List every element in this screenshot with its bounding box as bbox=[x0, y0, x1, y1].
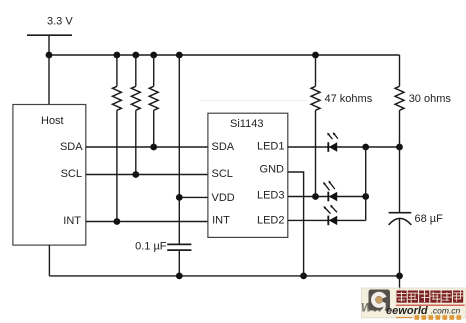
junction LED1 common bbox=[362, 144, 369, 151]
svg-text:GND: GND bbox=[260, 164, 285, 176]
power supply bar 3.3V bbox=[27, 34, 72, 36]
capacitor C1 0.1uF bbox=[167, 244, 191, 276]
svg-text:Host: Host bbox=[41, 115, 64, 127]
wire host top bbox=[48, 55, 50, 105]
resistor R3 pull-up SDA bbox=[149, 55, 158, 147]
svg-text:ee: ee bbox=[386, 305, 398, 317]
svg-text:.com.cn: .com.cn bbox=[431, 306, 461, 316]
svg-text:VDD: VDD bbox=[212, 192, 235, 204]
wire INT bus bbox=[86, 221, 208, 223]
resistor R5 30ohm bbox=[395, 55, 404, 147]
faint artifact line bbox=[200, 99, 308, 101]
wire LED1 row bbox=[288, 146, 400, 148]
svg-text:LED2: LED2 bbox=[257, 214, 285, 226]
svg-text:INT: INT bbox=[212, 215, 230, 227]
junction SDA R3 bbox=[150, 144, 157, 151]
svg-text:world: world bbox=[398, 305, 428, 317]
junction rail 47k bbox=[312, 52, 319, 59]
IC U1 Si1143 bbox=[208, 113, 288, 237]
junction gnd C2 bbox=[396, 273, 403, 280]
wire VDD to chip bbox=[179, 196, 208, 198]
junction VDD bbox=[176, 194, 183, 201]
junction LED3 47k bbox=[312, 193, 319, 200]
wire SCL bus bbox=[86, 174, 208, 176]
wire power bar to rail bbox=[48, 35, 50, 55]
svg-text:68 µF: 68 µF bbox=[415, 213, 444, 225]
junction rail at host bbox=[46, 52, 53, 59]
wire LED3 row bbox=[288, 196, 366, 198]
wire host gnd stub bbox=[48, 245, 50, 276]
wire LED2 row bbox=[288, 219, 366, 221]
LED D3 bbox=[323, 181, 337, 202]
resistor R1 pull-up INT bbox=[112, 55, 121, 222]
svg-text:LED3: LED3 bbox=[257, 190, 285, 202]
host block bbox=[13, 105, 86, 246]
junction gnd chip bbox=[300, 273, 307, 280]
junction SCL R2 bbox=[132, 171, 139, 178]
svg-text:SDA: SDA bbox=[60, 141, 83, 153]
wire top supply rail bbox=[49, 54, 400, 56]
svg-text:INT: INT bbox=[63, 215, 81, 227]
resistor R4 47k bbox=[311, 55, 320, 197]
svg-text:SCL: SCL bbox=[212, 168, 233, 180]
junction rail VDD line bbox=[176, 52, 183, 59]
LED D2 bbox=[323, 205, 337, 225]
junction LED3 common bbox=[362, 193, 369, 200]
wire ground bus bbox=[49, 275, 399, 277]
junction LED1 30ohm bbox=[396, 144, 403, 151]
wire gnd stub down bbox=[399, 276, 401, 291]
svg-text:3.3 V: 3.3 V bbox=[47, 16, 73, 28]
wire VDD vertical bbox=[178, 55, 180, 244]
capacitor C2 68uF bbox=[389, 147, 412, 276]
junction rail R1 bbox=[114, 52, 121, 59]
wire GND pin bbox=[288, 172, 304, 276]
svg-text:0.1 µF: 0.1 µF bbox=[135, 240, 167, 252]
junction INT R1 bbox=[114, 218, 121, 225]
wire SDA bus bbox=[86, 146, 208, 148]
svg-text:30 ohms: 30 ohms bbox=[409, 93, 452, 105]
junction rail R3 bbox=[150, 52, 157, 59]
resistor R2 pull-up SCL bbox=[131, 55, 140, 175]
svg-text:SDA: SDA bbox=[212, 141, 235, 153]
svg-text:LED1: LED1 bbox=[257, 141, 285, 153]
junction gnd C1 bbox=[176, 273, 183, 280]
svg-text:SCL: SCL bbox=[61, 168, 82, 180]
svg-text:47 kohms: 47 kohms bbox=[325, 93, 373, 105]
junction rail R2 bbox=[132, 52, 139, 59]
watermark bbox=[361, 288, 466, 320]
LED D1 bbox=[327, 132, 338, 152]
svg-text:Si1143: Si1143 bbox=[230, 118, 263, 130]
wire LED common vertical bbox=[365, 147, 367, 220]
